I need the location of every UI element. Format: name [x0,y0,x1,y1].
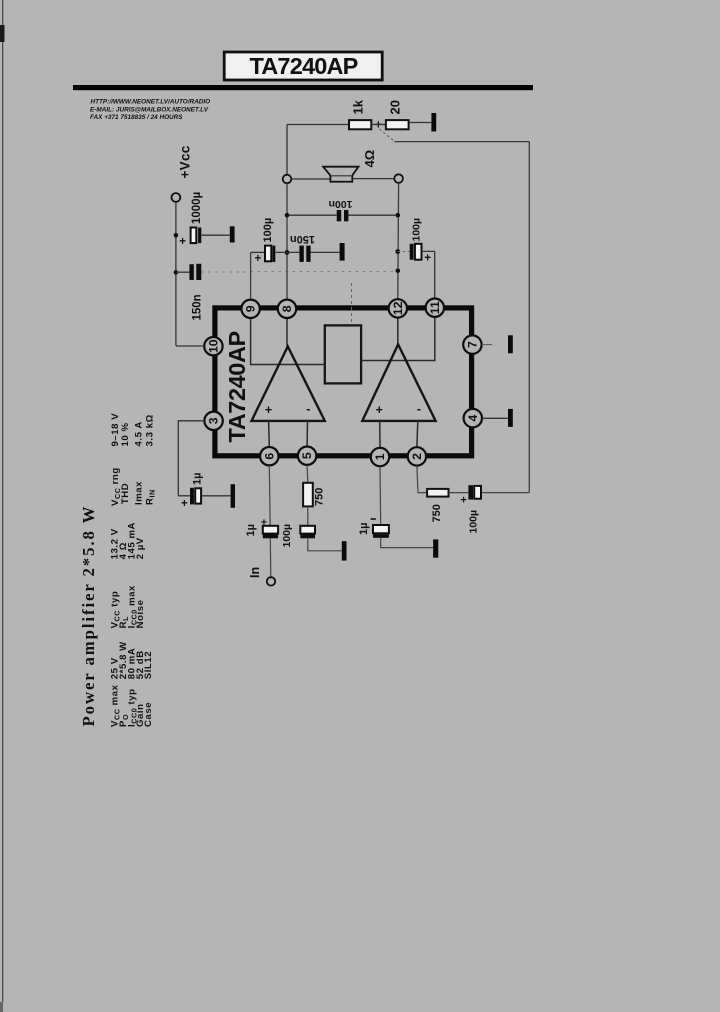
wire pin 12 to op-amp B apex [397,317,399,345]
junction node right 100u row [395,249,400,254]
svg-text:+: + [424,253,431,265]
+Vcc rail vertical wire [175,202,177,346]
svg-text:TA7240AP: TA7240AP [224,331,250,442]
pin 7 [463,335,481,353]
wire corner to capacitor 1u pin3 [178,495,190,497]
svg-text:THD: THD [120,483,131,504]
ground bar 1000u [230,226,235,242]
loudspeaker symbol [323,167,358,182]
pin 5 [298,447,316,465]
ground bar pin 5 chain [342,541,347,561]
wire 750 to capacitor 100u pin2 [449,492,469,494]
svg-text:6: 6 [262,453,276,460]
dashed link from junction to feedback line [380,129,395,141]
wire 1000u to ground [201,234,230,236]
title box [224,52,382,80]
pin 9 [241,300,259,318]
svg-text:HTTP://WWW.NEONET.LV/AUTO/RADI: HTTP://WWW.NEONET.LV/AUTO/RADIO [91,99,211,106]
svg-text:FAX +371 7518835 / 24 HOURS: FAX +371 7518835 / 24 HOURS [90,114,183,121]
svg-text:10: 10 [206,339,220,353]
header rule [73,85,533,90]
capacitor 150n right [299,246,310,262]
svg-text:Noise: Noise [135,600,146,629]
wire capacitor to feedback line [482,492,529,494]
capacitor 100u pin2 (electrolytic) [468,485,481,499]
wire pin 8 to op-amp A apex [286,318,288,347]
wire pin 3 left and down [178,421,204,496]
resistor 750 pin5 [303,483,313,507]
capacitor 100u pin5 (vertical) [300,526,315,539]
svg-text:3: 3 [207,417,221,424]
wire 100n row left [289,214,337,216]
pin 10 [204,337,222,355]
wire 100u to junction [275,251,299,253]
wire capacitor down and to ground pin1 [381,538,433,548]
junction node 1000u [174,233,179,238]
junction node left 100u row [285,250,290,255]
wire from 20 to ground [409,122,432,124]
svg-text:+Vcc: +Vcc [178,145,193,178]
wire op-amp B minus to pin 2 [416,421,419,447]
svg-text:+: + [375,119,382,131]
In terminal circle [267,577,275,585]
wire capacitor to In terminal [269,538,272,577]
pin 4 [464,409,482,427]
svg-text:100µ: 100µ [262,218,274,243]
ground bar pin 3 chain [231,484,235,508]
svg-text:1k: 1k [351,99,366,114]
capacitor 1u pin1 (vertical) [373,525,389,538]
wire pin 11 to bias block [361,316,435,361]
svg-text:100µ: 100µ [281,524,293,548]
svg-text:-: - [306,402,310,416]
svg-text:Imax: Imax [134,481,145,505]
wire 150n to ground [311,251,340,253]
wire op-amp B plus to pin 1 [379,421,381,447]
junction node right 100n row [396,213,401,218]
svg-text:150n: 150n [192,294,204,320]
wire capacitor to ground pin3 [201,495,231,497]
svg-text:TA7240AP: TA7240AP [249,53,357,79]
resistor 750 pin2 [427,489,448,497]
junction node right rail row [396,269,401,274]
svg-text:In: In [248,567,262,578]
svg-text:4.5 A: 4.5 A [134,421,145,446]
pin 12 [389,299,407,317]
bias block rectangle [325,325,361,383]
wire rail to capacitor 150n [176,271,190,273]
capacitor 100n [337,210,349,221]
svg-text:+: + [181,498,188,510]
wire left corner vertical down to speaker terminal [286,125,288,175]
capacitor 1u input (electrolytic, vertical) [263,526,278,539]
svg-text:7: 7 [465,341,479,348]
wire pin 9 to bias block [251,318,325,365]
wire op-amp A minus to pin 5 [306,421,308,447]
svg-text:4Ω: 4Ω [362,150,377,168]
speaker left terminal circle [283,175,292,184]
+Vcc terminal circle [172,193,181,202]
svg-text:+: + [376,403,383,417]
feedback wire right vertical [528,142,530,493]
svg-text:11: 11 [428,301,442,314]
svg-text:3.3 kΩ: 3.3 kΩ [145,414,156,446]
svg-text:9: 9 [244,305,258,312]
ground bar pin 1 chain [433,539,438,557]
capacitor 100u left (electrolytic) [265,246,275,262]
ground bar pin 7 [508,335,513,353]
svg-text:+: + [179,236,186,248]
wire terminal to speaker [291,178,330,180]
junction node 150n rail [174,270,179,275]
svg-text:Power amplifier 2*5.8 W: Power amplifier 2*5.8 W [79,505,98,727]
wire 100u-left row start [251,251,265,253]
wire pin 6 down [268,466,271,526]
wire pin 4 to ground [482,417,508,419]
capacitor 1000u (electrolytic, horizontal) [191,228,202,244]
wire pin 5 down [306,465,309,483]
wire pin 2 down and right [417,466,427,493]
svg-text:-: - [417,402,421,416]
wire pin 1 down [379,467,382,526]
svg-text:2 µV: 2 µV [135,537,146,559]
capacitor 1u pin3 (electrolytic) [190,488,201,505]
left edge blob [0,25,5,42]
svg-text:1µ: 1µ [245,524,257,536]
svg-text:1: 1 [373,453,387,460]
svg-text:10 %: 10 % [120,422,131,446]
ground bar pin 4 [508,409,513,427]
wire speaker to right terminal [352,178,394,180]
svg-text:2: 2 [410,453,424,460]
capacitor 100u right (electrolytic) [410,244,422,260]
dashed rail wire to right [201,271,395,273]
pin 6 [260,447,278,465]
capacitor 150n left [189,264,201,280]
wire output-right vertical (terminal to pin 12) [397,183,400,300]
wire from left corner to resistor 1k [287,124,349,126]
svg-text:1µ: 1µ [192,473,204,485]
svg-text:5: 5 [300,452,314,459]
faint internal dashed line above bias block [351,283,353,325]
feedback wire top horizontal [394,141,529,143]
svg-text:4: 4 [466,415,480,422]
svg-text:750: 750 [314,488,326,506]
svg-text:+: + [265,403,272,417]
svg-text:8: 8 [280,305,294,312]
svg-text:Case: Case [143,702,154,727]
wire 750 to capacitor 100u pin5 [307,506,309,525]
svg-text:100n: 100n [329,198,353,210]
svg-text:E-MAIL: JURIS@MAILBOX.NEONET.L: E-MAIL: JURIS@MAILBOX.NEONET.LV [90,106,209,113]
svg-text:100µ: 100µ [411,218,423,242]
svg-text:+: + [254,253,261,265]
svg-text:750: 750 [431,504,443,522]
wire 100n row right [348,214,395,216]
op-amp B triangle [362,344,435,421]
svg-text:1000µ: 1000µ [191,192,203,224]
svg-text:+: + [460,495,466,507]
left page edge line [2,0,3,1002]
IC TA7240AP body [215,308,472,456]
wire between 1k and 20 [371,124,386,126]
ground bar 150n [340,243,345,261]
pin 3 [204,412,222,430]
wire pin9 riser [250,252,252,300]
wire pin 10 to +Vcc rail [176,345,204,347]
svg-text:100µ: 100µ [468,510,480,534]
bottom-left corner mark [0,1002,3,1012]
wire capacitor down and to ground pin5 [308,538,342,551]
dashed wire junction to 100u right [398,251,410,253]
junction node left 100n row [285,213,290,218]
pin 8 [278,300,296,318]
pin 11 [426,299,444,317]
wire pin 7 stub [482,344,492,346]
svg-text:1µ: 1µ [358,523,370,535]
wire 100u right to pin 11 riser [422,251,435,299]
wire op-amp A plus to pin 6 [268,421,271,447]
pin 1 [371,448,389,466]
svg-text:12: 12 [391,301,405,315]
minus mark capacitor 1u pin1 [371,518,376,520]
svg-text:SIL12: SIL12 [143,651,154,679]
capacitor 20 [386,120,409,129]
speaker right terminal circle [394,174,403,183]
svg-text:150n: 150n [290,233,315,245]
resistor 1k [349,120,371,129]
ground bar top right [431,113,436,132]
wire output-left vertical (terminal to pin 8) [286,183,288,299]
svg-text:20: 20 [388,100,403,114]
op-amp A triangle [252,346,325,421]
pin 2 [408,447,426,465]
